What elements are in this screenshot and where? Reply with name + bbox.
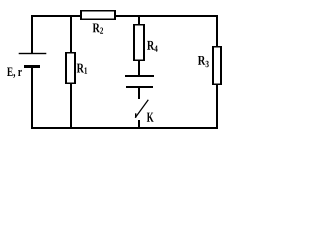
label R1 [77, 64, 87, 74]
label R4 [147, 41, 158, 52]
wire left branch upper (top wire to battery top plate) [31, 15, 33, 53]
resistor R4 box [133, 24, 145, 61]
capacitor top plate [125, 75, 154, 77]
wire R4 box to capacitor [138, 61, 140, 75]
resistor R3 box [212, 46, 222, 85]
wire bottom [31, 127, 218, 129]
wire R4 branch stub (top wire to R4 box) [138, 15, 140, 24]
battery E,r bottom plate [24, 65, 40, 68]
battery E,r top plate [19, 53, 47, 54]
switch K pivot tick [135, 113, 136, 117]
wire switch to bottom wire [138, 120, 140, 127]
capacitor bottom plate [126, 86, 153, 88]
wire capacitor to switch contact [138, 88, 140, 99]
wire left branch lower (battery bottom plate to bottom wire) [31, 68, 33, 127]
wire top left segment [31, 15, 80, 17]
wire right branch upper (top wire to R3 box) [216, 15, 218, 46]
wire R1 branch lower [70, 84, 72, 127]
label K [147, 113, 154, 122]
resistor R2 box [80, 10, 116, 20]
wire right branch lower (R3 box to bottom wire) [216, 85, 218, 127]
wire R1 branch upper [70, 15, 72, 52]
switch K blade [135, 100, 148, 118]
wire top right segment [115, 15, 218, 17]
resistor R1 box [65, 52, 76, 84]
label R3 [198, 56, 209, 67]
label R2 [93, 23, 103, 33]
label E, r [7, 67, 22, 78]
